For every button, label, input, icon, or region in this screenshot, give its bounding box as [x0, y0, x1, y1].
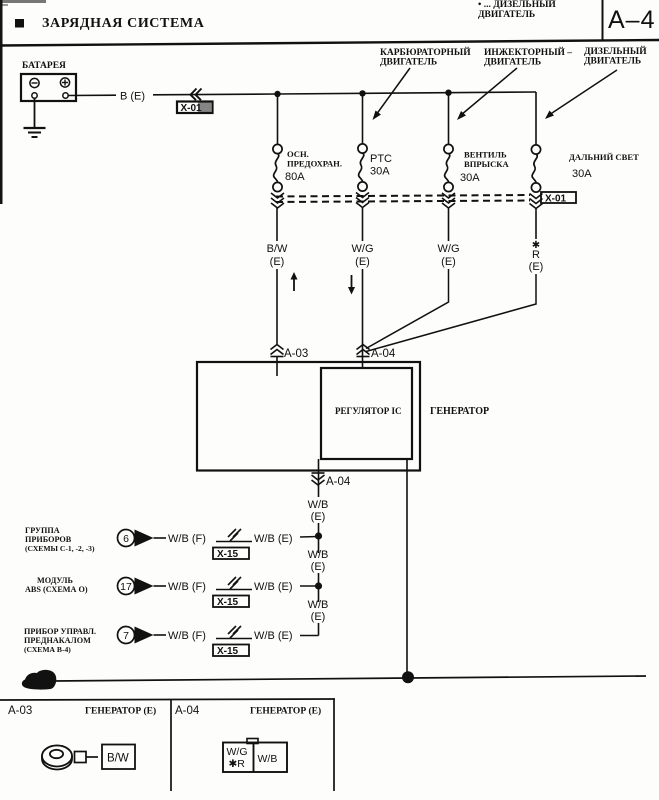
svg-text:30A: 30A: [572, 168, 592, 180]
svg-text:(E): (E): [441, 256, 456, 268]
node bus/fuse1: [274, 91, 280, 97]
top bus wire: [278, 92, 537, 94]
connector A-04 below generator chevrons: [312, 473, 325, 485]
svg-text:30A: 30A: [370, 166, 390, 178]
wire bus corner to fuse4: [535, 92, 537, 145]
svg-text:ДВИГАТЕЛЬ: ДВИГАТЕЛЬ: [484, 58, 541, 68]
connector A-04 chevrons: [357, 345, 370, 357]
svg-text:ИНЖЕКТОРНЫЙ –: ИНЖЕКТОРНЫЙ –: [484, 46, 572, 58]
chevrons below fuse4: [530, 194, 543, 209]
connector X-01 label box: [177, 102, 213, 115]
footer divider 1: [170, 700, 172, 792]
svg-text:W/B (E): W/B (E): [254, 581, 293, 593]
page label A-4 box: [602, 0, 604, 41]
wire fuse4 down: [535, 208, 537, 239]
wire bus to fuse3: [448, 93, 450, 145]
svg-text:A-04: A-04: [175, 705, 200, 717]
svg-text:X-15: X-15: [217, 597, 239, 608]
label W/G (E): [438, 243, 460, 268]
svg-text:X-15: X-15: [217, 646, 239, 657]
svg-text:(СХЕМА B-4): (СХЕМА B-4): [24, 645, 71, 654]
wire fuse4 diagonal to A-04: [366, 274, 536, 352]
connector X-15 row3: [216, 626, 252, 639]
node bus/fuse3: [445, 90, 451, 96]
svg-text:(E): (E): [355, 256, 370, 268]
svg-text:(СХЕМЫ C-1, -2, -3): (СХЕМЫ C-1, -2, -3): [25, 544, 95, 553]
svg-text:W/G: W/G: [438, 243, 460, 255]
svg-text:W/B: W/B: [308, 599, 329, 611]
connector X-15 row2: [216, 577, 252, 590]
svg-text:7: 7: [123, 630, 129, 642]
row3: glow control unit: [24, 627, 96, 654]
svg-text:ПРЕДОХРАН.: ПРЕДОХРАН.: [287, 159, 342, 169]
triangle row3: [135, 627, 154, 644]
svg-text:R: R: [532, 249, 540, 261]
label W/B (E): [308, 549, 329, 573]
row2: ABS module: [25, 576, 88, 594]
chevrons below fuse3: [442, 193, 455, 208]
svg-text:ВЕНТИЛЬ: ВЕНТИЛЬ: [464, 150, 507, 160]
fuse box dashed boundary (double dashed lines): [276, 195, 530, 202]
chevrons below fuse1: [271, 193, 284, 208]
footer table top rule: [0, 699, 335, 700]
svg-text:17: 17: [120, 581, 132, 593]
svg-text:W/B: W/B: [308, 549, 329, 561]
svg-text:ДВИГАТЕЛЬ: ДВИГАТЕЛЬ: [478, 10, 535, 20]
svg-text:✱R: ✱R: [229, 758, 246, 770]
svg-text:X-15: X-15: [217, 549, 239, 560]
label W/B (E): [308, 499, 329, 523]
fuse PTC 30A: [358, 144, 367, 191]
header tiny corner note: [0, 0, 46, 6]
svg-text:W/G: W/G: [227, 746, 248, 758]
generator box: [197, 362, 420, 471]
connector A-03 chevrons: [271, 345, 284, 357]
connector X-01 inline chevrons: [191, 89, 202, 101]
wire label to bus: [153, 93, 278, 96]
svg-text:A-03: A-03: [284, 348, 308, 360]
pin 17 circle: [118, 578, 135, 595]
wire battery to label B (E): [68, 94, 116, 96]
triangle row2: [135, 578, 154, 595]
node row2: [315, 582, 322, 589]
svg-text:• ... ДИЗЕЛЬНЫЙ: • ... ДИЗЕЛЬНЫЙ: [478, 0, 556, 10]
wire regulator to A-04 down: [318, 459, 320, 497]
wire generator B+ down to ground bus: [406, 460, 408, 678]
fuse labels: [287, 149, 639, 169]
svg-text:ДВИГАТЕЛЬ: ДВИГАТЕЛЬ: [380, 58, 437, 68]
wire: [154, 537, 167, 539]
svg-text:ГРУППА: ГРУППА: [25, 526, 60, 535]
svg-text:(E): (E): [529, 261, 544, 273]
note: diesel engine footnote: [478, 0, 556, 20]
svg-text:W/G: W/G: [352, 243, 374, 255]
wire fuse2 to A-04: [362, 269, 364, 368]
label W/B (E): [308, 599, 329, 623]
svg-text:30A: 30A: [460, 172, 480, 184]
svg-text:ГЕНЕРАТОР (E): ГЕНЕРАТОР (E): [250, 706, 321, 717]
svg-text:W/B (E): W/B (E): [254, 630, 293, 642]
svg-text:ДВИГАТЕЛЬ: ДВИГАТЕЛЬ: [584, 57, 641, 67]
row1: instrument cluster: [25, 526, 95, 553]
svg-text:W/B (F): W/B (F): [168, 581, 206, 593]
regulator IC box: [321, 368, 412, 459]
pin 7 circle: [118, 627, 135, 644]
ground bus: [54, 676, 646, 681]
svg-text:B (E): B (E): [120, 91, 145, 103]
svg-text:ПРИБОРОВ: ПРИБОРОВ: [25, 535, 72, 544]
svg-text:(E): (E): [311, 511, 326, 523]
arrow to injector wire: [457, 68, 517, 120]
wire to node row1: [318, 523, 320, 553]
svg-text:W/B: W/B: [308, 499, 329, 511]
fuse main 80A: [273, 144, 282, 191]
label *R (E): [529, 240, 544, 273]
wire fuse3 diagonal to A-04: [366, 269, 449, 349]
wire fuse2 down: [362, 208, 364, 241]
svg-text:ОСН.: ОСН.: [287, 149, 309, 159]
node B+/ground bus: [402, 671, 414, 683]
wire fuse1 to A-03: [276, 269, 278, 344]
svg-text:МОДУЛЬ: МОДУЛЬ: [37, 576, 73, 585]
svg-text:(E): (E): [311, 561, 326, 573]
svg-text:6: 6: [123, 533, 129, 545]
chevrons below fuse2: [356, 193, 369, 208]
svg-text:G: G: [33, 675, 44, 691]
ground (battery): [24, 98, 46, 137]
wire to node row2: [318, 573, 320, 602]
ground symbol G (car body): [22, 670, 56, 691]
wire bus to fuse2: [362, 93, 364, 144]
wire fuse3 down: [448, 208, 450, 241]
arrow up (current direction): [291, 272, 298, 291]
svg-text:ГЕНЕРАТОР (E): ГЕНЕРАТОР (E): [85, 706, 156, 717]
svg-text:80A: 80A: [285, 171, 305, 183]
connector X-01 label box (right): [541, 192, 576, 205]
svg-text:ГЕНЕРАТОР: ГЕНЕРАТОР: [430, 406, 489, 417]
svg-text:ВПРЫСКА: ВПРЫСКА: [464, 159, 510, 169]
wire fuse1 down: [276, 208, 278, 241]
header rule: [0, 40, 659, 46]
svg-text:БАТАРЕЯ: БАТАРЕЯ: [22, 61, 66, 71]
svg-text:W/B (F): W/B (F): [168, 630, 206, 642]
svg-text:РЕГУЛЯТОР IC: РЕГУЛЯТОР IC: [335, 406, 402, 416]
connector X-15 row1: [216, 529, 252, 542]
footer divider 2: [333, 700, 335, 792]
fuse high beam 30A: [531, 145, 540, 192]
svg-text:X-01: X-01: [545, 194, 567, 205]
svg-text:ДАЛЬНИЙ СВЕТ: ДАЛЬНИЙ СВЕТ: [569, 152, 639, 162]
svg-text:A-03: A-03: [8, 705, 32, 717]
title bullet: [15, 19, 24, 28]
svg-text:ПРЕДНАКАЛОМ: ПРЕДНАКАЛОМ: [24, 636, 91, 645]
connector drawing (A-04): [223, 739, 287, 773]
ring terminal drawing (A-03): [42, 746, 98, 770]
svg-text:ДИЗЕЛЬНЫЙ: ДИЗЕЛЬНЫЙ: [584, 45, 647, 57]
wire to node row1: [300, 536, 319, 539]
svg-text:A-04: A-04: [326, 476, 351, 488]
left page border: [0, 0, 3, 204]
svg-text:A-04: A-04: [371, 348, 396, 360]
label B/W (E): [267, 243, 288, 268]
triangle row1: [135, 530, 154, 547]
pin 6 circle: [118, 530, 135, 547]
svg-text:ЗАРЯДНАЯ СИСТЕМА: ЗАРЯДНАЯ СИСТЕМА: [42, 16, 205, 31]
node row1: [315, 532, 322, 539]
svg-text:ПРИБОР УПРАВЛ.: ПРИБОР УПРАВЛ.: [24, 627, 96, 636]
arrow down (current direction): [348, 275, 355, 295]
engine type labels: [380, 45, 647, 68]
svg-text:B/W: B/W: [107, 753, 129, 765]
battery: [21, 74, 76, 101]
arrow to carburetor wire: [373, 68, 411, 120]
wire A-03 into generator: [276, 357, 278, 377]
svg-text:W/B (E): W/B (E): [254, 533, 293, 545]
svg-text:PTC: PTC: [370, 153, 392, 165]
svg-text:W/B: W/B: [258, 753, 278, 765]
svg-text:W/B (F): W/B (F): [168, 533, 206, 545]
svg-text:КАРБЮРАТОРНЫЙ: КАРБЮРАТОРНЫЙ: [380, 46, 471, 58]
svg-text:(E): (E): [270, 256, 285, 268]
svg-text:A–4: A–4: [608, 6, 655, 34]
node bus/fuse2: [359, 90, 365, 96]
svg-text:B/W: B/W: [267, 243, 288, 255]
svg-text:ABS (СХЕМА O): ABS (СХЕМА O): [25, 585, 88, 594]
svg-text:(E): (E): [311, 611, 326, 623]
fuse injection valve 30A: [444, 144, 453, 191]
label W/G (E): [352, 243, 374, 268]
wire to row3: [318, 623, 320, 636]
B/W label box: [102, 745, 135, 770]
wire bus to fuse1: [277, 94, 279, 145]
arrow to diesel wire: [545, 70, 617, 119]
